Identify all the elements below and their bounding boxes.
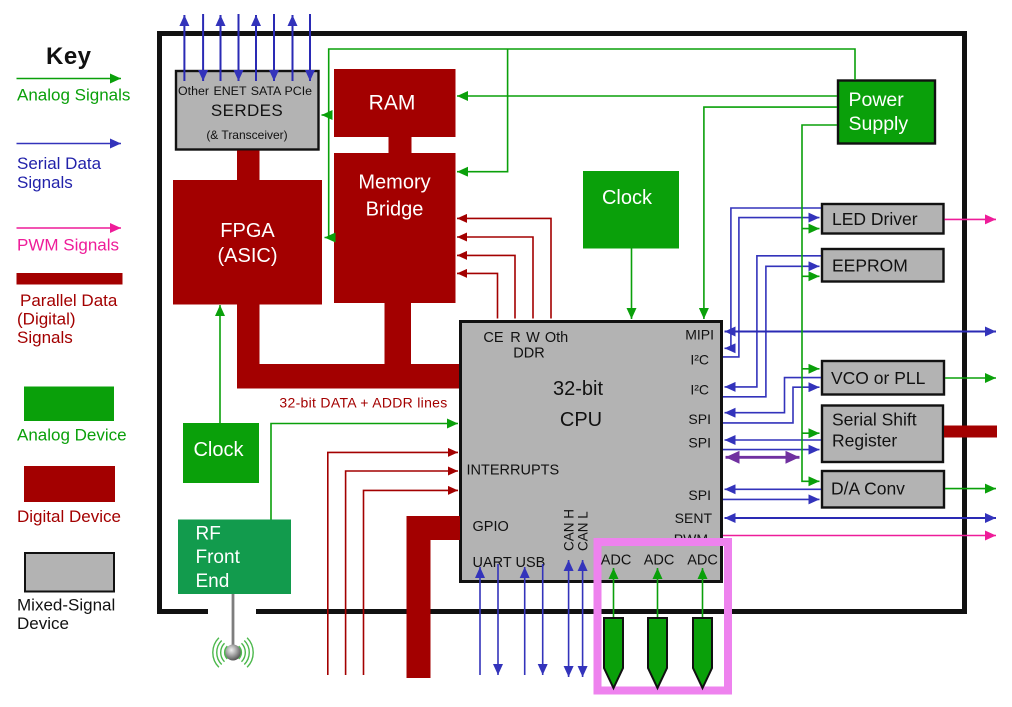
block CPU (mixed-signal)	[461, 322, 722, 582]
wire branch down to Memory Bridge	[457, 49, 508, 172]
svg-text:Power: Power	[849, 89, 905, 111]
thick GPIO parallel bus	[407, 516, 461, 678]
ADC probe 3	[693, 618, 712, 688]
SERDES up arrow 4	[292, 15, 294, 81]
svg-text:SPI: SPI	[688, 435, 711, 451]
thick bus stub Serial Shift Register out	[944, 426, 997, 438]
svg-text:(ASIC): (ASIC)	[218, 245, 278, 267]
svg-text:Memory: Memory	[358, 172, 430, 194]
svg-text:32-bit DATA + ADDR lines: 32-bit DATA + ADDR lines	[279, 395, 447, 411]
svg-text:CPU: CPU	[560, 409, 602, 431]
key PWM signal arrow	[17, 227, 122, 229]
key serial data arrow	[17, 143, 122, 145]
svg-text:SPI: SPI	[688, 411, 711, 427]
svg-text:Register: Register	[832, 431, 897, 451]
wire ADC probe arrow 2	[657, 568, 659, 619]
SERDES up arrow 1	[183, 15, 185, 81]
wire UART in	[479, 567, 481, 675]
svg-text:Other: Other	[178, 84, 209, 98]
wire CPU SPI to Serial Shift Register	[723, 449, 820, 451]
svg-text:ADC: ADC	[687, 553, 718, 569]
wire CPU PWM out	[723, 535, 996, 537]
svg-text:I²C: I²C	[690, 352, 709, 368]
svg-text:Clock: Clock	[193, 439, 244, 461]
wire power supply top loop to FPGA	[325, 49, 856, 238]
antenna ball	[225, 645, 241, 661]
wire power supply to CPU top	[704, 107, 837, 319]
svg-text:PWM Signals: PWM Signals	[17, 236, 119, 255]
key analog device swatch	[24, 387, 114, 422]
wire CPU SPI to D/A Conv	[723, 498, 820, 500]
svg-text:CAN H: CAN H	[562, 509, 577, 551]
svg-text:ADC: ADC	[601, 553, 632, 569]
wire clock left to FPGA	[219, 305, 221, 423]
PWM highlight box (violet)	[598, 542, 729, 691]
key analog signal arrow	[17, 78, 122, 80]
wire LED Driver to CPU I2C	[725, 208, 822, 348]
svg-text:Bridge: Bridge	[366, 199, 424, 221]
block Memory Bridge digital	[334, 153, 456, 303]
bus stub RAM to Memory Bridge	[389, 136, 412, 154]
svg-text:ADC: ADC	[644, 553, 675, 569]
svg-text:ENET: ENET	[213, 84, 246, 98]
svg-text:R: R	[510, 330, 520, 346]
svg-text:Device: Device	[17, 614, 69, 633]
wire CPU I2C to EEPROM	[723, 266, 820, 397]
svg-text:CAN L: CAN L	[576, 511, 591, 551]
svg-text:VCO or PLL: VCO or PLL	[831, 368, 926, 388]
svg-text:I²C: I²C	[690, 382, 709, 398]
wire D/A analog out	[945, 488, 996, 490]
wire rail branch to VCO	[802, 368, 820, 370]
svg-text:Signals: Signals	[17, 328, 73, 347]
svg-text:Signals: Signals	[17, 173, 73, 192]
ADC probe 1	[604, 618, 623, 688]
svg-text:PCIe: PCIe	[285, 84, 313, 98]
bus stub FPGA down	[237, 304, 260, 364]
block FPGA (ASIC) digital	[173, 180, 322, 305]
svg-text:Supply: Supply	[849, 113, 909, 135]
wire interrupt 3	[364, 490, 459, 675]
svg-text:End: End	[196, 571, 230, 592]
wire W to Memory Bridge	[457, 237, 533, 319]
svg-text:SPI: SPI	[688, 487, 711, 503]
svg-text:(Digital): (Digital)	[17, 310, 76, 329]
wire D/A Conv to CPU SPI	[725, 488, 822, 490]
wire USB in	[524, 567, 526, 675]
svg-text:Serial Data: Serial Data	[17, 154, 102, 173]
svg-text:D/A Conv: D/A Conv	[831, 479, 905, 499]
wire VCO analog out	[945, 377, 996, 379]
bus stub SERDES to FPGA	[237, 151, 260, 181]
block Serial Shift Register (mixed-signal)	[822, 406, 943, 463]
antenna stem	[232, 594, 235, 647]
block VCO or PLL (mixed-signal)	[822, 361, 944, 395]
wire Oth to Memory Bridge	[457, 218, 551, 318]
wire UART out	[497, 564, 499, 675]
bus stub Memory Bridge down	[385, 303, 412, 364]
wire R to Memory Bridge	[457, 255, 515, 318]
key digital device swatch	[24, 466, 115, 502]
wire CE to Memory Bridge	[457, 273, 498, 318]
SERDES down arrow 4	[309, 14, 311, 81]
SERDES down arrow 3	[273, 14, 275, 81]
svg-text:W: W	[526, 330, 540, 346]
svg-text:32-bit: 32-bit	[553, 378, 603, 400]
wire SENT long bidirectional	[725, 517, 997, 519]
wire interrupt 2	[346, 471, 458, 675]
block EEPROM (mixed-signal)	[822, 249, 944, 282]
svg-text:MIPI: MIPI	[685, 327, 714, 343]
wire clock center to CPU	[631, 249, 633, 320]
svg-text:SENT: SENT	[675, 510, 713, 526]
svg-text:RF: RF	[196, 524, 221, 545]
svg-text:FPGA: FPGA	[220, 220, 275, 242]
wire rail branch to EEPROM	[802, 275, 820, 277]
block SERDES (mixed-signal)	[176, 71, 319, 150]
block RAM digital	[334, 69, 456, 137]
svg-text:Analog Signals: Analog Signals	[17, 86, 130, 105]
wire Serial Shift Register to CPU SPI	[725, 439, 822, 441]
board outline border with antenna gap at bottom	[160, 34, 965, 612]
wire branch into SERDES	[322, 114, 329, 116]
wire MIPI long bidirectional	[725, 331, 997, 333]
wire VCO to CPU SPI	[725, 378, 822, 413]
antenna waves right	[239, 638, 254, 668]
antenna waves left	[213, 638, 228, 668]
wire USB out	[542, 564, 544, 675]
svg-text:UART USB: UART USB	[473, 555, 546, 571]
wire power supply rail to right column	[802, 125, 837, 481]
wire CPU I2C to LED Driver	[723, 218, 820, 357]
svg-text:Mixed-Signal: Mixed-Signal	[17, 596, 115, 615]
block Clock left (analog)	[183, 423, 259, 483]
ADC probe 2	[648, 618, 667, 688]
svg-text:CE: CE	[483, 330, 503, 346]
svg-text:EEPROM: EEPROM	[832, 256, 908, 276]
wire rail branch to Serial Shift Register	[802, 432, 820, 434]
wire CAN H bidirectional	[568, 560, 570, 677]
svg-text:Clock: Clock	[602, 187, 653, 209]
svg-text:(& Transceiver): (& Transceiver)	[206, 128, 287, 142]
wire rail branch to LED Driver	[802, 228, 820, 230]
svg-text:RAM: RAM	[369, 92, 416, 115]
key mixed-signal device swatch	[25, 553, 114, 592]
SERDES up arrow 3	[255, 15, 257, 81]
parallel bus bar 32-bit DATA + ADDR	[237, 364, 459, 389]
block D/A Conv (mixed-signal)	[822, 471, 944, 508]
wire CAN L bidirectional	[582, 560, 584, 677]
key parallel data bus bar	[17, 273, 123, 285]
svg-text:LED Driver: LED Driver	[832, 209, 918, 229]
wire purple double arrow CPU-SSR	[726, 456, 800, 459]
svg-text:SERDES: SERDES	[211, 101, 283, 120]
svg-text:INTERRUPTS: INTERRUPTS	[467, 463, 560, 479]
wire EEPROM to CPU I2C	[725, 256, 822, 387]
block LED Driver (mixed-signal)	[822, 204, 944, 234]
svg-text:Parallel Data: Parallel Data	[20, 291, 118, 310]
svg-text:Analog Device: Analog Device	[17, 426, 127, 445]
SERDES down arrow 1	[202, 14, 204, 81]
wire ADC probe arrow 3	[702, 568, 704, 619]
block Power Supply (analog)	[838, 81, 935, 144]
svg-text:Digital Device: Digital Device	[17, 507, 121, 526]
svg-text:Oth: Oth	[545, 330, 568, 346]
wire power supply to RAM	[457, 95, 837, 97]
wire RF front end to CPU	[271, 424, 458, 520]
wire interrupt 1	[328, 452, 458, 675]
SERDES down arrow 2	[238, 14, 240, 81]
svg-text:Serial Shift: Serial Shift	[832, 410, 917, 430]
wire CPU SPI to VCO	[723, 387, 820, 423]
wire LED Driver PWM out	[945, 218, 997, 220]
svg-text:SATA: SATA	[251, 84, 282, 98]
svg-text:GPIO: GPIO	[473, 519, 509, 535]
svg-text:Front: Front	[196, 547, 241, 568]
svg-text:DDR: DDR	[513, 346, 544, 362]
svg-text:Key: Key	[46, 43, 92, 70]
block Clock center (analog)	[583, 171, 679, 249]
block RF Front End (analog)	[178, 520, 291, 595]
SERDES up arrow 2	[220, 15, 222, 81]
wire ADC probe arrow 1	[613, 568, 615, 619]
